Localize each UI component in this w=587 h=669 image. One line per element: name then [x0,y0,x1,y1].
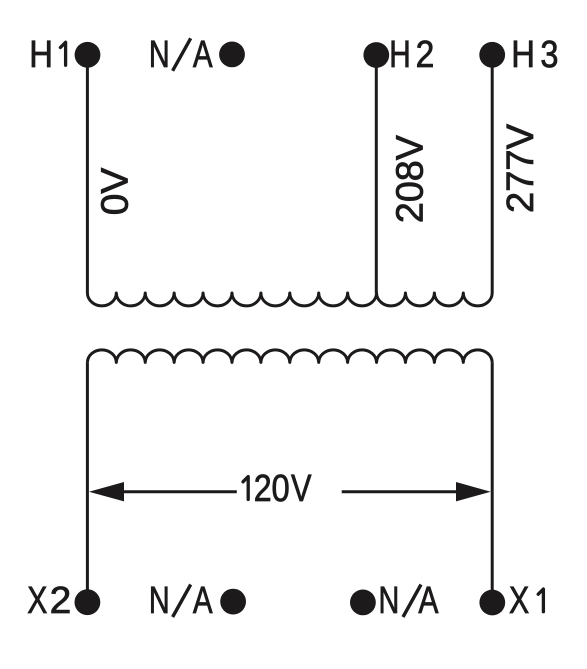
svg-text:0V: 0V [95,167,137,215]
svg-text:N: N [149,580,170,622]
svg-text:N: N [379,580,400,622]
svg-text:208V: 208V [389,134,431,223]
svg-text:3: 3 [540,34,558,76]
svg-text:A: A [193,34,213,76]
svg-text:H: H [511,34,535,76]
svg-text:H: H [29,34,53,76]
svg-text:2: 2 [416,34,435,76]
svg-text:A: A [418,580,439,622]
svg-text:V: V [291,468,312,510]
svg-text:X: X [509,580,529,622]
svg-text:X: X [27,580,47,622]
svg-text:N: N [149,34,170,76]
svg-text:0: 0 [272,468,290,510]
svg-text:H: H [389,34,411,76]
svg-text:2: 2 [50,580,72,622]
svg-text:2: 2 [254,468,272,510]
svg-text:A: A [193,580,213,622]
svg-text:277V: 277V [500,123,542,213]
